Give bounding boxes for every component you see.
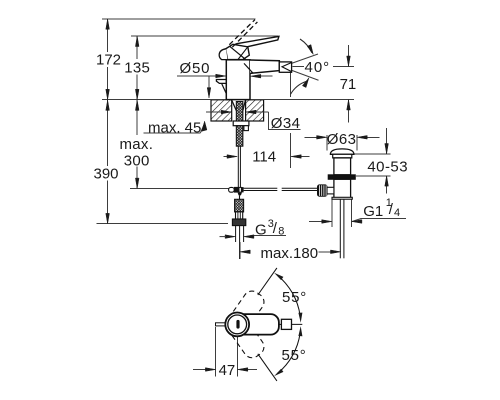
svg-text:71: 71: [340, 76, 357, 93]
svg-text:G: G: [255, 221, 267, 238]
svg-text:max.180: max.180: [261, 245, 319, 262]
svg-text:390: 390: [94, 165, 119, 182]
svg-text:8: 8: [278, 226, 284, 238]
svg-text:Ø34: Ø34: [271, 115, 301, 132]
svg-text:40°: 40°: [305, 59, 331, 76]
svg-text:G1: G1: [363, 203, 383, 220]
svg-text:114: 114: [252, 149, 276, 166]
svg-text:Ø63: Ø63: [327, 131, 357, 148]
svg-text:300: 300: [124, 153, 150, 170]
svg-text:55°: 55°: [282, 347, 307, 364]
svg-text:135: 135: [124, 59, 150, 76]
svg-text:172: 172: [96, 52, 121, 69]
svg-text:4: 4: [394, 207, 400, 219]
svg-text:55°: 55°: [282, 289, 307, 306]
svg-text:max.: max.: [120, 136, 154, 153]
svg-text:40-53: 40-53: [367, 159, 408, 176]
svg-text:47: 47: [219, 362, 236, 379]
svg-text:Ø50: Ø50: [180, 60, 211, 77]
svg-text:max. 45: max. 45: [148, 119, 201, 136]
